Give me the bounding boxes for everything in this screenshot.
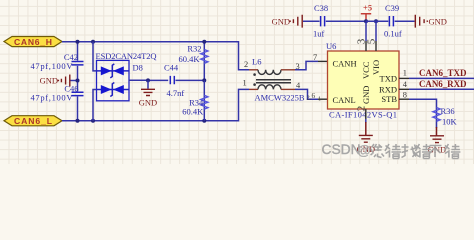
glyph cai 1 [385, 144, 401, 159]
svg-text:VCC: VCC [361, 61, 371, 79]
svg-text:GND: GND [429, 17, 447, 27]
wire D8 gnd to C44 [129, 79, 168, 81]
svg-text:R36: R36 [441, 106, 455, 116]
resistor R36 [433, 106, 458, 136]
svg-text:@: @ [357, 143, 371, 158]
wire choke pin4 to U6 CANL [295, 89, 328, 99]
svg-text:TXD: TXD [380, 74, 397, 84]
svg-text:8: 8 [403, 91, 407, 100]
node VIO tap [374, 19, 378, 23]
svg-text:10K: 10K [442, 117, 458, 127]
top rail: ground left [272, 15, 320, 28]
svg-text:60.4K: 60.4K [178, 54, 200, 64]
node R32/R34 mid [202, 78, 206, 82]
ground below R36 (bar style down) [428, 136, 446, 155]
ground GND left (bar style) [40, 75, 78, 87]
tvs pair 1 [97, 64, 130, 78]
node C42/C46 mid [76, 79, 80, 83]
svg-text:1: 1 [243, 79, 247, 88]
svg-text:47pf,100V: 47pf,100V [31, 61, 74, 71]
svg-text:1: 1 [403, 69, 407, 78]
wire CAN6_H to choke [62, 42, 249, 70]
glyph wo [402, 144, 420, 158]
pin RXD stub [399, 88, 409, 90]
watermark CSDN [322, 142, 461, 158]
wire choke pin3 to U6 CANH [295, 61, 328, 69]
wire VIO pin 5 [375, 21, 377, 41]
svg-text:GND: GND [40, 76, 58, 86]
wire ESD bottom bracket [93, 90, 97, 121]
port CAN6_L [4, 116, 62, 126]
wire ESD top bracket [93, 42, 97, 71]
power +5 [361, 3, 372, 22]
node D8 gnd [146, 78, 150, 82]
wire VCC pin 3 [365, 21, 367, 41]
wire CAN6_L to choke [62, 89, 249, 120]
inductor L6 common-mode choke [243, 56, 305, 102]
node CAN6_L junctions [76, 119, 80, 123]
wire between taps and C39 [366, 20, 388, 22]
svg-text:5: 5 [366, 38, 378, 44]
pin 2 lead [249, 69, 258, 71]
svg-text:ESD2CAN24T2Q: ESD2CAN24T2Q [96, 51, 157, 61]
svg-text:AMCW3225B: AMCW3225B [255, 93, 305, 103]
svg-text:CANH: CANH [333, 59, 357, 69]
glyph bu [429, 146, 442, 158]
node +5 [364, 19, 368, 23]
svg-text:0.1uf: 0.1uf [384, 29, 402, 39]
svg-text:U6: U6 [326, 41, 336, 51]
ground below U6 (bar style down) [357, 135, 375, 154]
svg-text:1uf: 1uf [313, 29, 325, 39]
wire CAN6_TXD [409, 77, 474, 79]
capacitor C39 [384, 3, 415, 39]
svg-text:D8: D8 [133, 63, 143, 73]
svg-text:47pf,100V: 47pf,100V [31, 92, 74, 102]
hand-drawn CJK glyphs [371, 144, 461, 159]
glyph cai 2 [415, 144, 431, 159]
capacitor C46 [31, 81, 84, 121]
svg-text:1: 1 [318, 96, 321, 103]
capacitor C44 [164, 63, 204, 98]
pin TXD stub [399, 77, 409, 79]
svg-text:C38: C38 [314, 3, 328, 13]
resistor R34 [182, 80, 208, 120]
op-amp U6 body CA-IF1042VS-Q1 [326, 41, 399, 120]
svg-text:2.: 2. [307, 95, 312, 102]
svg-text:60.4K: 60.4K [182, 106, 204, 116]
svg-text:CANL: CANL [333, 95, 356, 105]
svg-text:+5: +5 [363, 3, 372, 13]
pin 3 lead [281, 69, 295, 71]
svg-text:GND: GND [361, 86, 371, 104]
svg-text:CAN6_H: CAN6_H [14, 37, 52, 47]
pin 1 lead [249, 88, 258, 90]
port CAN6_H [4, 37, 62, 47]
resistor R32 [178, 42, 207, 81]
top rail: ground right [415, 15, 447, 28]
polarity dots [253, 73, 256, 76]
pin GND stub of U6 [365, 109, 367, 119]
svg-text:R32: R32 [187, 44, 201, 54]
svg-text:2: 2 [355, 106, 367, 112]
svg-text:VIO: VIO [371, 60, 381, 75]
pin 4 lead [281, 88, 295, 90]
capacitor C38 [313, 3, 366, 39]
svg-text:CSDN: CSDN [322, 142, 361, 157]
svg-text:GND: GND [139, 98, 157, 108]
svg-text:C39: C39 [385, 3, 399, 13]
svg-text:CAN6_TXD: CAN6_TXD [419, 68, 467, 78]
svg-text:L6: L6 [252, 56, 261, 66]
svg-text:CAN6_RXD: CAN6_RXD [419, 79, 467, 89]
node CAN6_H junctions [76, 40, 80, 44]
svg-text:C44: C44 [164, 63, 179, 73]
svg-text:GND: GND [272, 17, 290, 27]
capacitor C42 [31, 42, 84, 81]
winding top (scallops toward core) [258, 70, 281, 75]
svg-text:CAN6_L: CAN6_L [14, 116, 52, 126]
svg-text:7: 7 [313, 53, 317, 62]
wire CAN6_RXD [409, 88, 474, 90]
winding bottom (scallops toward core) [258, 85, 281, 90]
core lines [256, 80, 291, 83]
svg-text:2: 2 [244, 60, 248, 69]
svg-text:4.7nf: 4.7nf [167, 88, 185, 98]
ground below D8 (bar style down) [139, 80, 157, 107]
transient diode D8 ESD2CAN24T2Q [96, 51, 157, 101]
glyph nin [371, 144, 385, 158]
node R32 top / R34 bottom [202, 40, 206, 44]
pin STB stub [399, 98, 409, 100]
svg-text:STB: STB [381, 94, 397, 104]
tvs pair 2 [97, 83, 130, 97]
glyph cai 3 [444, 144, 460, 159]
wire STB to R36 [409, 99, 437, 106]
svg-text:6: 6 [312, 92, 316, 100]
